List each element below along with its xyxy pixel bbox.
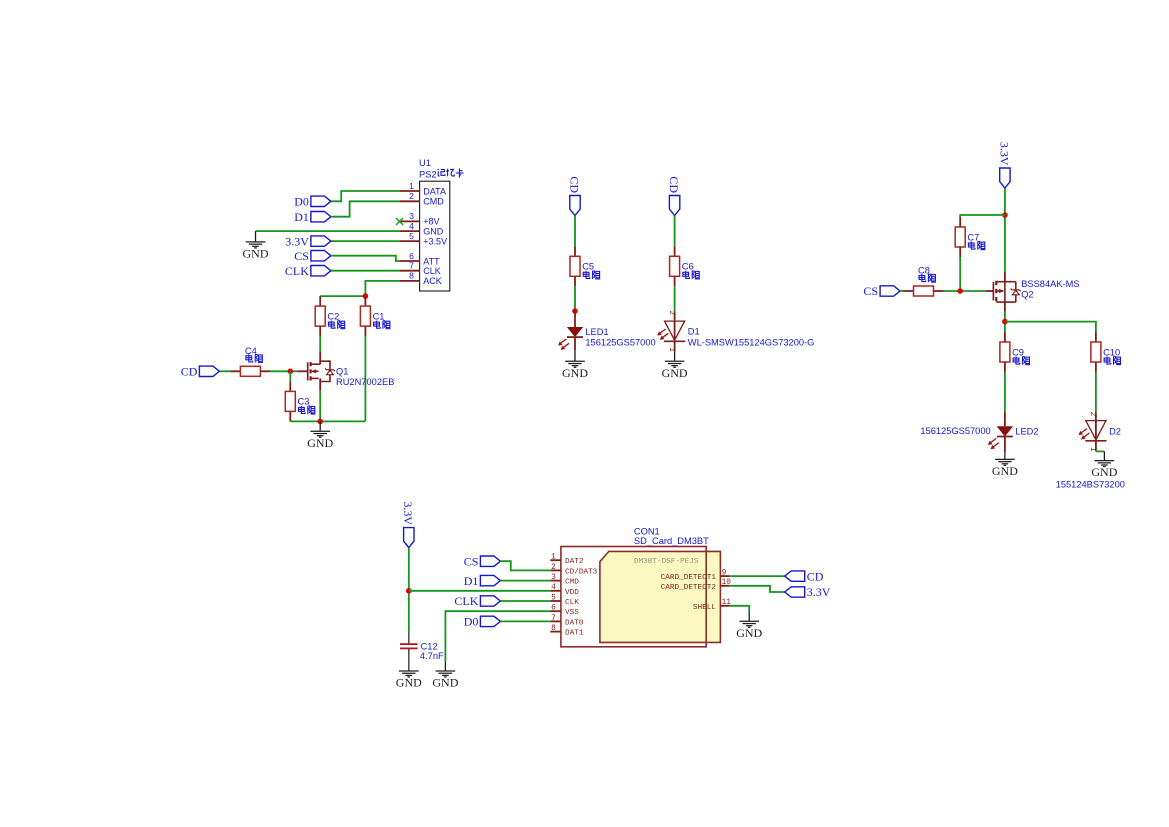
svg-text:ACK: ACK <box>423 276 442 286</box>
wire D0 to CON1 pin7 <box>500 620 550 622</box>
U1 value PS2记忆卡 <box>419 168 464 179</box>
svg-text:7: 7 <box>551 615 556 623</box>
CON1 pin 8 DAT1 <box>550 625 584 638</box>
svg-text:3: 3 <box>551 574 556 582</box>
wire bottom rail to ground <box>290 420 365 422</box>
svg-text:C1: C1 <box>373 311 385 321</box>
wire gate junction to C3 <box>289 371 291 381</box>
connector CON1 yellow card shape <box>600 551 721 642</box>
svg-text:CMD: CMD <box>565 579 579 587</box>
svg-text:6: 6 <box>409 251 414 261</box>
wire CS to C8 <box>900 290 903 292</box>
C4 value 电阻 <box>246 354 263 362</box>
resistor C6 <box>670 246 694 286</box>
C9 value 电阻 <box>1013 357 1030 365</box>
svg-text:U1: U1 <box>419 158 431 168</box>
wire C9 to LED2 <box>1004 372 1006 412</box>
port CD (bottom right) <box>785 569 824 583</box>
wire 3.3V down to Q2 source <box>1004 188 1006 272</box>
wire C6 to D1 <box>674 286 676 311</box>
ground lead <box>1103 451 1105 460</box>
CON1 pin 10 CARD_DETECT2 <box>661 579 732 592</box>
svg-text:GND: GND <box>736 626 762 640</box>
LED LED1 (filled) <box>558 311 583 350</box>
wire CD to C4 <box>219 370 230 372</box>
wire C7 to gate row <box>959 257 961 291</box>
port D1 (bottom) <box>464 574 501 588</box>
wire C2 to Q1 drain <box>319 336 321 352</box>
CON1 pin 1 DAT2 <box>550 554 584 567</box>
svg-text:7: 7 <box>409 261 414 271</box>
svg-text:D1: D1 <box>294 210 309 224</box>
wire D0 to U1 pin1 <box>331 191 400 201</box>
CON1 pin 3 CMD <box>550 574 579 587</box>
svg-text:WL-SMSW155124GS73200-G: WL-SMSW155124GS73200-G <box>688 337 815 347</box>
wire D1 to CON1 pin3 <box>500 580 550 582</box>
svg-text:CARD_DETECT2: CARD_DETECT2 <box>661 584 717 592</box>
svg-text:GND: GND <box>562 366 588 380</box>
svg-text:D1: D1 <box>464 574 479 588</box>
wire SHELL to ground <box>729 606 749 612</box>
CON1 pin 5 CLK <box>550 594 579 607</box>
svg-text:DAT2: DAT2 <box>565 558 584 566</box>
svg-text:D1: D1 <box>688 326 700 336</box>
wire branch to C7 <box>960 215 1005 217</box>
wire CARD_DETECT2 to 3.3V port <box>729 586 784 592</box>
svg-text:D0: D0 <box>294 195 309 209</box>
svg-text:156125GS57000: 156125GS57000 <box>585 337 655 347</box>
svg-text:CLK: CLK <box>565 599 579 607</box>
svg-text:155124BS73200: 155124BS73200 <box>1056 479 1125 489</box>
C5 value 电阻 <box>583 271 600 279</box>
ground GND near U1 <box>243 242 269 261</box>
svg-text:5: 5 <box>409 231 414 241</box>
port 3.3V <box>285 234 331 248</box>
wire CS to CON1 pin2 <box>500 561 550 570</box>
svg-text:C10: C10 <box>1103 347 1120 357</box>
ground lead <box>574 350 576 361</box>
junction at Q1 gate / C3 <box>288 369 294 375</box>
svg-text:CLK: CLK <box>423 266 441 276</box>
port D0 (bottom) <box>464 615 501 629</box>
svg-text:GND: GND <box>1091 465 1117 479</box>
svg-text:PS2: PS2 <box>419 169 437 179</box>
svg-text:CS: CS <box>464 554 479 568</box>
C10 value 电阻 <box>1104 357 1121 365</box>
svg-text:+8V: +8V <box>423 217 439 227</box>
wire D2 to ground <box>1096 450 1105 452</box>
svg-text:1: 1 <box>409 181 414 191</box>
svg-text:CMD: CMD <box>423 197 444 207</box>
wire CS to U1 pin6 <box>331 256 400 261</box>
ground GND below Q1 <box>307 431 333 450</box>
connector U1 body <box>420 181 450 291</box>
CON1 pin 7 DAT0 <box>550 615 584 628</box>
CON1 pin 11 SHELL <box>693 599 731 612</box>
svg-text:GND: GND <box>307 436 333 450</box>
junction at 3.3V branch <box>1002 212 1008 218</box>
svg-text:DAT1: DAT1 <box>565 630 584 638</box>
svg-text:VSS: VSS <box>565 609 579 617</box>
svg-text:GND: GND <box>662 366 688 380</box>
svg-text:C2: C2 <box>327 311 339 321</box>
C6 value 电阻 <box>683 271 700 279</box>
svg-text:CLK: CLK <box>285 264 309 278</box>
U1 pin 7 CLK <box>400 261 441 277</box>
wire 3.3V to U1 pin5 <box>331 240 400 242</box>
svg-text:C9: C9 <box>1012 347 1024 357</box>
svg-text:CD: CD <box>667 176 681 193</box>
C8 value 电阻 <box>919 274 936 282</box>
wire D1 to U1 pin2 <box>331 201 400 216</box>
svg-text:6: 6 <box>551 605 556 613</box>
svg-text:GND: GND <box>396 676 422 690</box>
svg-text:CD: CD <box>807 569 824 583</box>
port 3.3V (right circuit) <box>997 142 1011 188</box>
junction at Q1 source rail <box>317 419 323 425</box>
wire CLK to CON1 pin5 <box>500 600 550 602</box>
C7 value 电阻 <box>968 242 985 250</box>
LED LED2 (filled) <box>988 412 1013 453</box>
svg-text:SD_Card_DM3BT: SD_Card_DM3BT <box>634 536 709 546</box>
svg-text:156125GS57000: 156125GS57000 <box>920 426 990 436</box>
svg-text:BSS84AK-MS: BSS84AK-MS <box>1021 279 1079 289</box>
svg-text:8: 8 <box>551 625 556 633</box>
U1 pin 8 ACK <box>400 271 442 287</box>
svg-text:C7: C7 <box>967 232 979 242</box>
wire C10 to D2 <box>1095 372 1097 412</box>
resistor C8 <box>904 266 944 296</box>
resistor C5 <box>570 246 594 286</box>
CON1 pin 6 VSS <box>550 605 579 618</box>
svg-text:CARD_DETECT1: CARD_DETECT1 <box>661 574 717 582</box>
U1 pin 5 +3.5V <box>400 231 447 247</box>
svg-text:DM3BT-DSF-PEJS: DM3BT-DSF-PEJS <box>634 558 699 566</box>
ground GND for VSS <box>432 671 458 690</box>
resistor C10 <box>1091 332 1120 372</box>
capacitor C12 <box>400 631 418 671</box>
svg-text:GND: GND <box>432 676 458 690</box>
port D0 <box>294 195 331 209</box>
ground GND for SHELL <box>736 621 762 640</box>
svg-text:D0: D0 <box>464 615 479 629</box>
svg-text:4: 4 <box>409 221 414 231</box>
resistor C4 <box>230 346 270 376</box>
wire C8 to Q2 gate <box>944 290 986 292</box>
C3 value 电阻 <box>299 406 316 414</box>
port CLK (bottom) <box>454 594 500 608</box>
ground GND below LED2 <box>992 459 1018 478</box>
wire CON1 pin6 VSS to ground <box>445 611 550 662</box>
U1 pin 4 GND <box>400 221 444 237</box>
svg-text:CD: CD <box>181 365 198 379</box>
svg-text:CD/DAT3: CD/DAT3 <box>565 568 598 576</box>
CON1 pin 2 CD/DAT3 <box>550 564 597 577</box>
svg-text:D2: D2 <box>1109 426 1121 436</box>
transistor Q1 RU2N7002EB <box>298 352 335 391</box>
svg-text:3.3V: 3.3V <box>807 585 831 599</box>
ground GND below D1 <box>662 361 688 380</box>
svg-text:2: 2 <box>409 191 414 201</box>
CON1 pin 9 CARD_DETECT1 <box>661 570 730 583</box>
port CD (left) <box>181 365 220 379</box>
svg-text:CS: CS <box>863 284 878 298</box>
svg-text:C5: C5 <box>582 262 594 272</box>
no-connect X on U1 pin 3 <box>396 218 403 225</box>
ground lead <box>255 231 257 242</box>
svg-text:9: 9 <box>722 570 727 578</box>
svg-text:LED2: LED2 <box>1015 427 1038 437</box>
wire 3.3V down to C12 <box>408 548 410 632</box>
port 3.3V (bottom right) <box>785 585 831 599</box>
ground GND below C12 <box>396 671 422 690</box>
ground lead <box>1004 452 1006 459</box>
svg-text:2: 2 <box>667 311 675 316</box>
svg-text:RU2N7002EB: RU2N7002EB <box>336 377 394 387</box>
wire U1 pin4 to ground <box>256 230 400 232</box>
svg-text:8: 8 <box>409 271 414 281</box>
svg-text:GND: GND <box>992 464 1018 478</box>
svg-text:2: 2 <box>1088 412 1096 417</box>
svg-text:5: 5 <box>551 594 556 602</box>
svg-text:CD: CD <box>567 176 581 193</box>
junction C7/C8/gate <box>957 288 963 294</box>
C2 value 电阻 <box>328 321 345 329</box>
svg-text:Q1: Q1 <box>336 366 348 376</box>
svg-text:1: 1 <box>551 554 556 562</box>
svg-text:+3.5V: +3.5V <box>423 236 447 246</box>
wire CD port down <box>674 216 676 247</box>
ground GND below D2 <box>1091 461 1117 480</box>
resistor C2 <box>315 296 339 336</box>
ground lead <box>319 421 321 431</box>
svg-text:3: 3 <box>409 211 414 221</box>
U1 pin 2 CMD <box>400 191 445 207</box>
resistor C1 <box>360 296 384 336</box>
ground lead <box>444 662 446 671</box>
svg-text:LED1: LED1 <box>585 327 608 337</box>
U1 pin 3 +8V <box>400 211 440 227</box>
ground GND below LED1 <box>562 361 588 380</box>
LED D1 (outline) <box>657 311 685 353</box>
port 3.3V (bottom) <box>401 501 415 547</box>
svg-text:VDD: VDD <box>565 589 579 597</box>
svg-text:2: 2 <box>551 564 556 572</box>
wire U1 pin8 down <box>365 281 399 296</box>
svg-text:CS: CS <box>294 249 309 263</box>
svg-text:DATA: DATA <box>423 186 446 196</box>
port D1 <box>294 210 331 224</box>
svg-text:GND: GND <box>243 247 269 261</box>
wire Q1 source to rail <box>319 391 321 422</box>
port CD above LED1 <box>567 176 581 215</box>
wire branch to C10 <box>1005 322 1096 332</box>
svg-text:3.3V: 3.3V <box>285 234 309 248</box>
junction above LED1 <box>572 308 578 314</box>
U1 pin 1 DATA <box>400 181 446 197</box>
svg-text:4: 4 <box>551 584 556 592</box>
C1 value 电阻 <box>374 321 391 329</box>
wire C1 down to rail <box>364 336 366 421</box>
transistor Q2 BSS84AK-MS <box>986 272 1021 312</box>
wire CLK to U1 pin7 <box>331 270 400 272</box>
svg-text:CLK: CLK <box>454 594 478 608</box>
ground lead <box>674 352 676 362</box>
svg-text:ATT: ATT <box>423 256 440 266</box>
svg-text:Q2: Q2 <box>1021 289 1033 299</box>
resistor C7 <box>955 217 979 257</box>
svg-text:GND: GND <box>423 226 444 236</box>
svg-text:1: 1 <box>667 347 675 352</box>
port CD above D1 <box>667 176 681 215</box>
port CS (bottom) <box>464 554 501 568</box>
wire C5 to LED1 <box>574 286 576 311</box>
port CLK <box>285 264 331 278</box>
wire C2 top to C1 top <box>320 295 365 297</box>
wire Q2 drain down <box>1004 312 1006 332</box>
LED D2 (outline) <box>1079 412 1107 452</box>
svg-text:3.3V: 3.3V <box>401 501 415 525</box>
svg-text:1: 1 <box>1088 447 1096 452</box>
wire C4 to Q1 gate <box>270 370 298 372</box>
svg-text:3.3V: 3.3V <box>997 142 1011 166</box>
svg-text:4.7nF: 4.7nF <box>420 651 444 661</box>
junction at C1 top <box>363 293 369 299</box>
svg-text:DAT0: DAT0 <box>565 619 584 627</box>
junction 3.3V/VDD <box>406 588 412 594</box>
wire CARD_DETECT1 to CD port <box>729 575 784 577</box>
resistor C9 <box>1000 332 1024 372</box>
svg-text:SHELL: SHELL <box>693 604 716 612</box>
resistor C3 <box>285 381 309 421</box>
port CS <box>294 249 331 263</box>
port CS (right circuit) <box>863 284 900 298</box>
U1 pin 6 ATT <box>400 251 441 267</box>
CON1 pin 4 VDD <box>550 584 579 597</box>
connector CON1 body <box>561 547 706 647</box>
wire CD port down <box>574 216 576 247</box>
svg-text:C6: C6 <box>682 262 694 272</box>
svg-text:C3: C3 <box>298 397 310 407</box>
wire 3.3V to CON1 pin4 VDD <box>409 590 551 592</box>
ground lead <box>748 612 750 622</box>
junction at Q2 drain <box>1002 319 1008 325</box>
